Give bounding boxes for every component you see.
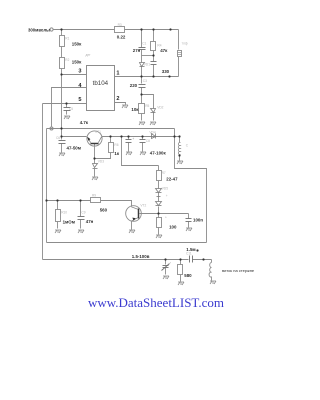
svg-text:47-50м: 47-50м [67,145,81,150]
svg-text:220: 220 [130,83,138,88]
wire cap C5 stub [66,104,68,108]
svg-text:1к: 1к [114,151,119,156]
svg-text:R7: R7 [162,171,166,175]
node pin4 circle [50,127,53,130]
ground VD2 [150,122,156,125]
capacitor C9 47n [78,216,85,218]
junction top at 47k [152,28,154,30]
svg-text:C11: C11 [186,252,192,256]
inductor L1 coil [178,142,180,154]
svg-text:R2: R2 [65,58,69,62]
wire diode VD2 branch [142,95,154,109]
svg-text:VT1: VT1 [95,130,101,134]
ground 100n [186,228,192,231]
ground cap C5 [64,116,70,119]
resistor R6 1k [109,143,114,153]
svg-text:VD2: VD2 [157,106,163,110]
junction bus riser [120,135,122,137]
svg-text:виток на стержне: виток на стержне [222,268,255,273]
wire vitok corner [211,260,213,263]
wire upper bottom rail y=242.5 [47,242,207,244]
svg-text:100n: 100n [193,218,203,223]
ground 580 [178,282,184,285]
svg-text:VD5: VD5 [162,186,168,190]
wire riser x=121.7 [122,137,159,166]
resistor R11 580 [178,265,183,275]
wire coil L stub [179,137,181,143]
wire left outer vertical x=42.3 [42,104,44,260]
junction 47n [79,199,81,201]
inductor L2 vitok [209,263,211,278]
svg-text:47н: 47н [86,219,94,224]
ground 10k [139,122,145,125]
wire 27n chain top [141,30,143,48]
wire electrolytic stub [128,137,130,140]
ground 47n [78,230,84,233]
junction bus 1k [109,135,111,137]
svg-text:R6: R6 [114,143,118,147]
svg-text:47-100к: 47-100к [150,151,167,156]
svg-text:0.22: 0.22 [117,34,126,39]
wire right top corner down x=178.9 [178,30,180,50]
capacitor C6 47-50m [59,140,66,142]
svg-text:1.5-100в: 1.5-100в [132,254,150,259]
svg-text:100: 100 [169,225,177,230]
svg-text:27н: 27н [133,48,141,53]
resistor R4 47k [151,42,156,51]
junction bus right cross [173,135,175,137]
wire collector bus y=136.2 [102,136,180,138]
resistor R5 10k [139,104,145,114]
junction diode out [157,212,159,214]
svg-text:2: 2 [116,96,119,102]
resistor R2 150k [60,58,65,69]
transistor Q1 [87,131,102,146]
wire base diode chain [94,159,96,164]
svg-text:tb104: tb104 [93,80,109,87]
wire Q1 base stub [94,144,96,159]
svg-text:R5: R5 [145,104,149,108]
wire right mid vertical x=174.5 [175,129,207,243]
wire cap 47-50m stub [61,137,63,140]
junction top right [169,28,171,30]
svg-text:330: 330 [162,69,170,74]
svg-text:C9: C9 [81,210,85,214]
svg-text:C6: C6 [56,136,60,140]
svg-text:C8: C8 [146,139,150,143]
terminal input [50,28,53,31]
junction pin5 cap [65,102,67,104]
svg-text:R9: R9 [92,194,96,198]
resistor R10 1mOm [56,210,61,222]
wire pin2 [115,103,126,105]
junction top at 27n [140,28,142,30]
junction base line [60,135,62,137]
diode VD4 series bus [152,134,156,139]
wire pin4 [52,88,87,127]
crystal BQ1 stripes [178,53,182,55]
ground vitok [210,281,216,284]
svg-text:580: 580 [184,273,192,278]
ground 1mOm [55,230,61,233]
diode VD1 [140,63,145,67]
svg-text:VD3: VD3 [98,159,104,163]
junction pin1 right [168,75,170,77]
wire 10k chain [141,95,143,104]
wire top rail y=29.5 [54,29,179,31]
capacitor C8 [140,139,146,141]
wire 580 stubs [180,260,182,265]
junction 1mOm [56,199,58,201]
diode VD5 [156,189,162,193]
wire 47k chain [153,30,155,62]
svg-text:www.DataSheetLIST.com: www.DataSheetLIST.com [88,295,224,310]
resistor R7 22-47 [157,171,162,181]
svg-text:R1: R1 [65,37,69,41]
junction rail trimmer [164,258,166,260]
capacitor C7 electrolytic [126,139,132,141]
svg-text:+: + [132,137,134,141]
ground 100 [156,235,162,238]
wire 1mOm stubs [57,201,59,210]
svg-text:C3: C3 [143,79,147,83]
wire 22-47 chain [158,166,160,171]
wire pin3 [62,74,87,76]
svg-text:22-47: 22-47 [166,177,178,182]
svg-text:+: + [166,194,168,198]
svg-text:1мОм: 1мОм [63,220,75,225]
svg-text:VD4: VD4 [149,131,155,135]
wire 27n chain mid [141,50,143,63]
svg-text:10к: 10к [131,107,139,112]
junction coil bottom [178,154,180,156]
wire cap2 stub [142,137,144,140]
svg-text:VT2: VT2 [140,203,146,207]
wire divider vertical x=61.8 [61,30,63,137]
junction pin1 VD1 [140,75,142,77]
junction stray dot [196,249,198,251]
junction bus divider [60,127,62,129]
junction rail 580 [179,258,181,260]
wire left inner vertical x=46.1 [46,129,48,243]
svg-text:4.7к: 4.7к [80,120,89,125]
diode VD3 base [93,164,98,168]
junction 220 10k [140,93,142,95]
wire 100n stubs [188,214,190,219]
ground Q2 emitter [129,230,135,233]
resistor R1 150k [60,36,65,47]
resistor R3 0.22 [115,27,125,33]
resistor R8 100 [157,218,162,228]
junction Q1 base [93,157,95,159]
ground pin2 [122,105,128,108]
svg-text:R10: R10 [61,210,67,214]
junction bus C8 [141,135,143,137]
svg-text:C5: C5 [69,107,73,111]
svg-text:дет: дет [86,53,92,57]
wire AGC bus y=128.2 [47,128,175,130]
junction rail right [202,258,204,260]
capacitor C1 27n [139,47,146,49]
wire Q2 output y=213 [140,213,189,215]
capacitor C10 100n [186,218,192,220]
wire 100 stubs [158,214,160,218]
ground electrolytic C7 [126,152,132,155]
capacitor C3 220 [139,84,146,86]
svg-text:R3: R3 [118,23,122,27]
wire lower bottom rail y=259.1 [43,259,189,261]
wire pin1 rail y=76.6 [115,76,179,78]
junction top at divider [60,28,62,30]
svg-text:R4: R4 [157,43,161,47]
svg-text:150к: 150к [72,41,82,46]
wire 27n chain low [141,67,143,77]
diode VD2 [151,109,156,113]
wire Q2 emitter stub [131,222,133,230]
wire crystal bottom to pin1 rail [178,57,180,77]
capacitor C2 330 [151,61,157,63]
wire 47n stubs [80,201,82,217]
junction pin1 330 [152,75,154,77]
wire resistor 1k stub [110,137,112,143]
capacitor C11 1.5m series [189,256,191,263]
junction AGC 560 [45,199,47,201]
IC U1 tb104 [87,66,115,111]
svg-text:150к: 150к [72,60,82,65]
junction bus C7 [127,135,129,137]
junction pin3 [60,73,62,75]
transistor Q2 [126,206,142,222]
wire trimmer stubs [165,260,167,265]
capacitor C12 trimmer 1.5-100v [163,265,169,267]
resistor R9 560 [91,198,101,203]
wire 560 line y=200.1 [47,201,132,207]
ground trimmer [163,276,169,279]
wire link y=55.4 [142,55,154,57]
svg-text:C1: C1 [142,42,146,46]
crystal BQ1 earphone [178,51,182,57]
svg-text:VD1: VD1 [144,63,150,67]
svg-text:300мвольт: 300мвольт [28,27,51,32]
ground diode VD3 [92,177,98,180]
svg-text:3: 3 [78,68,81,74]
wire pin5 [43,103,87,105]
wire 220 cap stub [141,77,143,84]
ground cap 47-50m [59,153,65,156]
svg-text:1: 1 [116,71,119,77]
junction link 47k [152,54,154,56]
junction coil top [178,135,180,137]
svg-text:560: 560 [100,208,108,213]
svg-text:+: + [165,215,167,219]
svg-text:47к: 47к [160,48,168,53]
svg-text:5: 5 [78,97,81,103]
ground cap C8 [140,152,146,155]
svg-text:тлф: тлф [182,42,188,46]
capacitor C5 pin5 [64,107,71,109]
diode VD6 [156,202,162,206]
ground coil L1 [177,161,183,164]
wire base line y=136.3 [62,136,87,138]
